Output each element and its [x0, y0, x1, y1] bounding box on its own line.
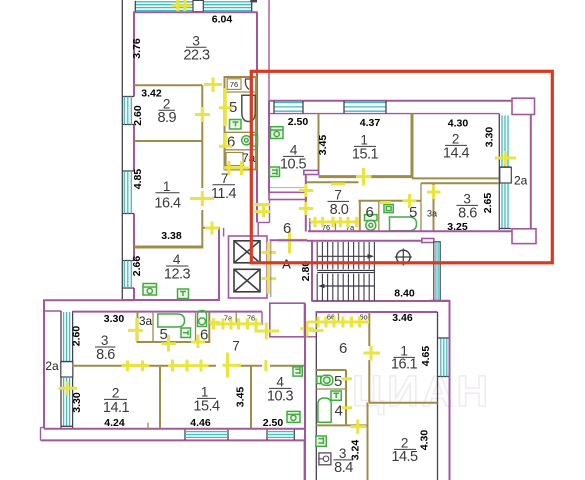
- window kitchen 2.50: [274, 102, 303, 104]
- svg-text:16.1: 16.1: [391, 357, 418, 373]
- vent symbol: [397, 250, 411, 264]
- yellow tick bath door: [342, 406, 353, 409]
- svg-text:6: 6: [339, 340, 347, 357]
- yellow cross room1 door: [226, 353, 229, 378]
- svg-text:2.50: 2.50: [288, 116, 309, 128]
- svg-text:6: 6: [227, 134, 235, 151]
- wall: apartment top: [73, 311, 262, 313]
- wall: hallway/room1 divider: [368, 312, 370, 346]
- svg-text:10.3: 10.3: [267, 389, 294, 405]
- east window niche: [438, 337, 450, 339]
- svg-text:3.45: 3.45: [235, 387, 247, 408]
- stove kitchen 10.3: [287, 411, 300, 422]
- wall: partition room3 / room2: [134, 84, 202, 86]
- wall: room1 bottom wall 3.38: [134, 246, 203, 249]
- svg-text:12.3: 12.3: [164, 267, 191, 283]
- yellow cross hallway door: [370, 346, 373, 361]
- wall: room3 west: [433, 183, 435, 231]
- svg-text:3.42: 3.42: [141, 87, 162, 99]
- yellow ticked line entry closets: [211, 322, 263, 325]
- wall: loggia top inner: [44, 310, 61, 312]
- wall: toilet top: [316, 369, 346, 371]
- RIGHTAPT: [269, 0, 536, 254]
- wall: hallway west step: [258, 222, 269, 224]
- wall: shaft stub: [223, 228, 225, 237]
- yellow cross tambour west: [265, 323, 268, 340]
- svg-text:14.4: 14.4: [443, 146, 470, 162]
- wall: toilet west: [359, 201, 361, 232]
- svg-text:3a: 3a: [427, 208, 437, 218]
- svg-text:14.1: 14.1: [103, 400, 130, 416]
- sink kitchen 10.3: [293, 367, 302, 376]
- wall: room 7 top: [306, 181, 359, 183]
- toilet fixture: [365, 215, 378, 221]
- yellow crosses rooms 3/2 doors: [122, 364, 150, 367]
- balcony door box in top window band: [193, 0, 203, 11]
- wall: sanitary bottom: [137, 341, 210, 343]
- svg-text:7: 7: [232, 339, 239, 354]
- svg-text:1: 1: [201, 385, 208, 400]
- wall stub at band: [147, 423, 149, 429]
- gray section line: [270, 187, 304, 189]
- window: room 2 left window 2.60: [122, 96, 134, 98]
- wall: bath block bottom: [316, 424, 367, 426]
- svg-text:2.65: 2.65: [482, 193, 494, 214]
- wall: room2 top: [369, 402, 438, 404]
- yellow tick room7 top: [331, 183, 345, 186]
- balcony door box: [61, 362, 73, 377]
- wall: toilet bottom: [316, 388, 346, 390]
- yellow crosses hallway east wall: [299, 189, 313, 192]
- svg-text:ЦИАН: ЦИАН: [352, 367, 491, 416]
- svg-text:2.60: 2.60: [71, 326, 83, 347]
- svg-text:3.38: 3.38: [161, 230, 182, 242]
- wall: partition room2 / room1: [134, 140, 202, 142]
- yellow cross door room1: [201, 191, 204, 206]
- stair arrow up: [318, 255, 370, 257]
- svg-text:22.3: 22.3: [183, 48, 210, 64]
- wall: block top outer: [43, 299, 135, 301]
- wall: block top: [316, 311, 438, 313]
- svg-text:3.76: 3.76: [131, 38, 143, 59]
- wall: 3a west: [137, 312, 139, 342]
- svg-text:11.4: 11.4: [211, 186, 237, 202]
- sanitary column outer walls: [225, 77, 257, 170]
- yellow cross sanitary bottom 1: [167, 335, 170, 352]
- window kitchen bottom: [266, 430, 268, 440]
- svg-text:2a: 2a: [45, 359, 59, 373]
- wall: gap wall between blocks: [268, 0, 270, 101]
- svg-text:10.5: 10.5: [280, 157, 307, 173]
- svg-text:6.04: 6.04: [212, 14, 233, 26]
- svg-text:2a: 2a: [514, 174, 528, 188]
- svg-text:8.6: 8.6: [458, 206, 477, 222]
- yellow ticked segment partition: [168, 364, 209, 367]
- wall: corridor7 bottom: [202, 227, 220, 229]
- window wall west with glazing: [60, 311, 62, 429]
- wall: rooms top partition: [73, 365, 216, 367]
- yellow marks sanitary west wall: [224, 88, 227, 126]
- yellow cross door room1: [362, 168, 365, 186]
- svg-text:15.4: 15.4: [193, 399, 220, 415]
- wall: right wall of top-left block: [256, 12, 258, 223]
- window: room 4 left window 2.66: [122, 260, 134, 262]
- wall: apartment bottom: [308, 230, 512, 232]
- svg-text:3a: 3a: [139, 314, 153, 328]
- yellow cross sanitary bottom 2: [197, 335, 200, 349]
- wall: block west: [315, 311, 317, 480]
- wall: 5/6 divider: [195, 312, 197, 342]
- stair arrow down: [322, 285, 374, 287]
- wall: east window wall: [437, 312, 439, 480]
- yellow cross corridor end: [211, 222, 214, 235]
- BOTTOMLEFT: [41, 300, 306, 480]
- elevator shaft outline: [229, 236, 268, 298]
- window 2.65 room 3: [501, 184, 503, 229]
- svg-text:16.4: 16.4: [154, 196, 181, 212]
- svg-text:8.40: 8.40: [394, 287, 415, 299]
- svg-text:8.4: 8.4: [334, 460, 353, 476]
- wall: loggia west: [43, 300, 45, 428]
- svg-text:8.0: 8.0: [330, 202, 349, 218]
- svg-text:4.24: 4.24: [104, 417, 125, 429]
- window room1 bottom: [184, 430, 186, 440]
- stairwell left wall: [311, 240, 313, 301]
- top wall band of right apartment: [269, 100, 512, 114]
- wall: rooms 1/4 divider: [250, 366, 252, 429]
- window band: top windows of room 3: [135, 1, 252, 12]
- yellow cross bath door: [408, 194, 411, 208]
- sink box room 5: [181, 328, 191, 338]
- yellow cross on top window: [176, 0, 179, 12]
- wall: hallway bottom: [270, 239, 308, 241]
- window 3.30 room 2: [501, 116, 503, 168]
- svg-text:15.1: 15.1: [352, 147, 379, 163]
- elevator cab 2: [234, 269, 260, 292]
- stair top wall pier: [422, 239, 434, 243]
- wall: outer thin left line of top-left block: [121, 0, 123, 300]
- wall: apartment bottom outer: [41, 439, 306, 441]
- balcony door box: [500, 167, 512, 183]
- svg-text:4: 4: [276, 375, 284, 390]
- wall: 3a east: [152, 312, 154, 342]
- green box right of washer: [253, 135, 258, 146]
- wall: apartment bottom inner: [44, 428, 305, 430]
- svg-text:1: 1: [163, 179, 170, 194]
- svg-text:2.60: 2.60: [132, 105, 144, 126]
- entry tambour: [270, 303, 305, 337]
- wall: room7a top: [225, 149, 257, 151]
- wall: rooms 1/2 partition: [411, 114, 414, 178]
- svg-text:4.30: 4.30: [448, 117, 469, 129]
- svg-text:5: 5: [159, 326, 167, 343]
- svg-text:1: 1: [360, 133, 367, 148]
- closet divider 7a/76: [235, 312, 237, 325]
- stove kitchen 10.5: [271, 127, 284, 139]
- svg-text:5: 5: [334, 373, 342, 390]
- svg-text:4.65: 4.65: [420, 346, 432, 367]
- tambour bottom wall extension: [305, 336, 317, 338]
- pier bottom right: [512, 229, 536, 244]
- svg-text:7a: 7a: [242, 151, 256, 165]
- shower box: [331, 391, 341, 400]
- svg-text:76: 76: [230, 80, 238, 89]
- svg-text:2.50: 2.50: [263, 417, 284, 429]
- svg-text:3: 3: [192, 34, 199, 49]
- window room1 4.37: [344, 102, 386, 104]
- stairwell bottom wall: [312, 300, 450, 302]
- stair window column: [434, 242, 440, 301]
- svg-text:3: 3: [463, 192, 470, 207]
- closet divider 66/6o: [338, 312, 340, 322]
- wall: left wall of right apartment: [268, 101, 270, 193]
- BOTTOMRIGHT: [308, 300, 450, 480]
- wall: rooms 2/1 divider: [159, 367, 161, 429]
- svg-text:4.37: 4.37: [360, 117, 381, 129]
- washing machine room 6: [198, 311, 207, 327]
- wall: hallway east wall: [305, 175, 307, 186]
- yellow ticked line closets: [308, 321, 369, 324]
- svg-text:6: 6: [365, 204, 373, 221]
- svg-text:3.24: 3.24: [349, 440, 361, 461]
- yellow door marks on west double wall: [255, 203, 271, 206]
- TOPLEFT: [122, 0, 257, 301]
- wall: strip wall right of hallway: [309, 222, 311, 232]
- yellow tick west wall: [309, 329, 324, 332]
- sink kitchen 10.5: [270, 167, 280, 177]
- wall: rooms 2/3 partition: [412, 177, 499, 179]
- svg-text:8.9: 8.9: [157, 110, 176, 126]
- yellow cross room3 door: [356, 420, 359, 435]
- svg-text:4: 4: [290, 143, 298, 158]
- pier top right: [512, 98, 535, 114]
- yellow cross west window: [65, 381, 68, 396]
- bath fixture room 5: [158, 314, 185, 327]
- wall cap at top right of window band: [250, 0, 257, 2]
- wall: central block bottom wall: [123, 299, 220, 301]
- closet boxes 76 7a: [309, 218, 311, 232]
- closet 76 box: [227, 79, 241, 90]
- svg-text:3.25: 3.25: [447, 221, 468, 233]
- wall: apartment east: [304, 303, 306, 480]
- wall: room6 top: [225, 131, 257, 133]
- svg-text:4.30: 4.30: [419, 430, 431, 451]
- elevator cab 1: [234, 241, 260, 263]
- yellow cross 3a wall: [135, 318, 138, 341]
- wall: toilet/bath divider: [378, 201, 380, 232]
- svg-text:8.6: 8.6: [96, 347, 115, 363]
- wall: partition x202 room2/corridor7: [201, 85, 203, 188]
- wall: entry east stub: [261, 312, 263, 325]
- svg-text:4.85: 4.85: [132, 169, 144, 190]
- wall: landing west thin: [270, 241, 272, 297]
- wall: sanitary east: [208, 312, 210, 343]
- wall: kitchen south / hallway north band: [269, 192, 306, 199]
- wall: kitchen 12.3 right wall: [218, 228, 220, 301]
- yellow elevator landing line: [267, 242, 270, 294]
- stair treads upper flight: [317, 242, 369, 269]
- svg-text:14.5: 14.5: [391, 449, 418, 465]
- wall: south section edge: [303, 440, 305, 480]
- door arc symbol: [245, 79, 250, 90]
- yellow tick kitchen door: [264, 360, 267, 371]
- wall: rooms 3/2 divider: [367, 403, 369, 480]
- yellow cross east window: [504, 151, 507, 166]
- wall: window wall east: [498, 114, 500, 230]
- yellow cross tambour east: [305, 321, 308, 337]
- svg-text:2: 2: [452, 132, 459, 147]
- svg-text:3.46: 3.46: [392, 312, 413, 324]
- wall: 3a west: [420, 183, 422, 231]
- bath fixture: [318, 398, 331, 422]
- wall: sanitary block top: [359, 200, 405, 202]
- yellow cross hallway door: [288, 231, 291, 254]
- svg-text:4: 4: [173, 252, 181, 267]
- sink room 5: [230, 120, 242, 130]
- wall: notch above hallway: [304, 170, 319, 174]
- wall: bath east wall: [345, 370, 347, 426]
- yellow tick sanitary east: [210, 321, 221, 324]
- toilet fixture: [317, 376, 321, 383]
- wall: room5 top: [225, 91, 257, 93]
- wall: kitchen/room1 partition: [318, 114, 320, 175]
- sink bath room: [384, 204, 393, 212]
- svg-text:3: 3: [101, 333, 108, 348]
- wall: top wall of room 3: [133, 11, 257, 13]
- wall: hallway west upper: [269, 199, 271, 223]
- wardrobe box room 7a: [226, 153, 243, 166]
- CENTER: [229, 199, 450, 340]
- svg-text:3.30: 3.30: [484, 127, 496, 148]
- yellow cross door room2: [201, 107, 204, 122]
- stove kitchen 12.3: [143, 284, 157, 296]
- wall: east outer: [449, 300, 451, 480]
- yellow tick toilet door: [342, 377, 353, 380]
- svg-text:2.66: 2.66: [131, 256, 143, 277]
- svg-text:3.30: 3.30: [104, 313, 125, 325]
- toilet fixture room 5: [242, 95, 255, 121]
- wall: room1 bottom: [319, 175, 358, 178]
- yellow cross 3a wall: [432, 185, 435, 199]
- stair mid landing lines: [317, 269, 374, 271]
- washing machine room 6: [242, 136, 251, 145]
- svg-text:3.30: 3.30: [71, 392, 83, 413]
- svg-text:3.45: 3.45: [317, 135, 329, 156]
- highlight red rectangle: [251, 71, 552, 262]
- wall: loggia east wall: [530, 115, 532, 230]
- yellow ticked line closets: [310, 221, 359, 224]
- wall: lobby top right: [430, 300, 450, 302]
- window: room 1 left window 4.85: [122, 170, 134, 172]
- stair treads lower flight: [317, 274, 369, 301]
- yellow cross door 7a: [224, 166, 249, 169]
- bath fixture: [390, 217, 417, 231]
- sink kitchen 12.3: [178, 289, 189, 299]
- sink fixture: [316, 436, 326, 446]
- wall: left wall of top-left block: [133, 12, 135, 97]
- yellow cross door room3: [212, 78, 215, 93]
- stair flight edge: [373, 242, 375, 301]
- stairwell top wall: [307, 240, 434, 242]
- svg-text:4: 4: [334, 403, 342, 420]
- svg-text:3: 3: [339, 446, 346, 461]
- wall: room 3 top: [421, 182, 499, 184]
- svg-text:6: 6: [283, 220, 291, 237]
- svg-text:4.46: 4.46: [190, 417, 211, 429]
- svg-text:2: 2: [112, 386, 119, 401]
- svg-text:7: 7: [334, 188, 341, 203]
- panel box: [319, 453, 331, 465]
- svg-text:7: 7: [221, 171, 228, 186]
